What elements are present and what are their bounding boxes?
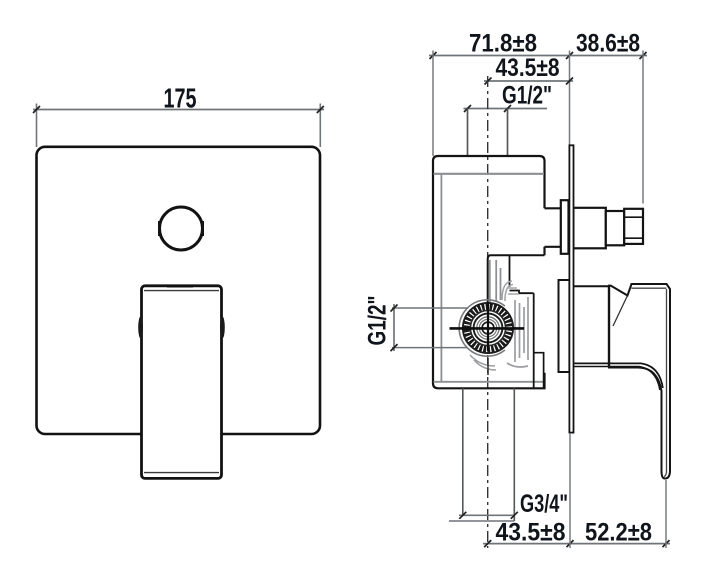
tick G1/2 top (391, 305, 398, 312)
G1/2 left extension bottom (392, 347, 467, 349)
handle inner bottom line (144, 472, 219, 474)
cartridge lower step (534, 353, 544, 388)
dimension 175 line (33, 109, 324, 111)
ring dark mid (474, 314, 503, 343)
bottom port line right (513, 388, 515, 521)
crosshair vertical (487, 302, 489, 351)
tick at 488 (485, 78, 492, 85)
handle side bump right (220, 317, 225, 339)
G1/2 left dimension line vertical (393, 304, 395, 351)
pipe section after plate (573, 208, 605, 249)
pipe stub top line (545, 207, 562, 209)
body inner gray vertical (440, 174, 442, 382)
outer gray flange arc (459, 300, 505, 356)
vertical centerline (dashed) (487, 76, 489, 300)
svg-text:52.2±8: 52.2±8 (585, 519, 652, 547)
nut hex line upper (624, 216, 643, 218)
extension line lever tip (665, 480, 667, 548)
knurl band (467, 307, 509, 349)
43.5 top dimension line (484, 80, 573, 82)
gray hatch right of circle (507, 297, 528, 367)
pipe nut (624, 209, 643, 244)
cartridge inner vertical (510, 255, 534, 293)
extension line plate top (569, 51, 571, 146)
handle side bump left (138, 317, 143, 339)
sleeve left of plate (559, 280, 570, 372)
G3/4 dimension line (459, 514, 514, 516)
tick at 433 (430, 52, 437, 59)
extension line left of plate (36, 104, 38, 148)
handle inner top line (144, 290, 219, 292)
tick at 569 (43.5) (566, 78, 573, 85)
tick at 569 (566, 52, 573, 59)
cartridge right vertical (533, 293, 535, 388)
extension line plate bottom (569, 433, 571, 548)
tick left (33, 106, 40, 113)
cartridge top outline (488, 255, 545, 302)
handle top middle tick (167, 285, 193, 288)
knob side tick left (158, 221, 160, 236)
svg-text:G3/4": G3/4" (520, 490, 568, 518)
pipe flange (561, 200, 569, 254)
G1/2 top dimension line (464, 108, 548, 110)
handle bottom outer line (574, 367, 660, 391)
G1/2 left extension top (392, 307, 467, 309)
handle inner top line (632, 287, 667, 289)
handle body silhouette (609, 284, 670, 479)
top dimension line (429, 55, 647, 57)
sleeve right of plate top line (574, 285, 610, 287)
body box outline (433, 156, 545, 388)
extension line nut end (642, 51, 644, 204)
bottom dimension line (483, 543, 670, 545)
tick at 507.5 (504, 105, 511, 112)
gray cap below circle (470, 355, 496, 370)
handle base left edge (608, 286, 610, 368)
wall plate (front) (37, 147, 321, 434)
knob side tick right (202, 221, 204, 236)
handle chamfer diagonal (613, 296, 628, 327)
tick at centerline (484, 540, 491, 547)
gray stem above port circle (490, 260, 501, 302)
tick G1/2 bottom (391, 344, 398, 351)
svg-text:43.5±8: 43.5±8 (496, 519, 566, 547)
nut hex line lower (624, 237, 643, 239)
diverter knob circle (160, 207, 203, 250)
tick G3/4 right (511, 512, 518, 519)
extension line right of plate (319, 104, 321, 148)
G3/4 second line (449, 520, 514, 522)
pipe stub bottom line (545, 246, 562, 248)
svg-text:43.5±8: 43.5±8 (496, 54, 560, 82)
body inner gray bottom band line (434, 381, 545, 383)
wall plate (side) (569, 145, 573, 432)
bottom port line left (462, 388, 464, 515)
top port line right (507, 109, 509, 157)
centerline dash below circle (487, 358, 489, 375)
inner edge of knurl (470, 310, 505, 345)
tick at lever (663, 540, 670, 547)
handle inner right line + lever inner line (664, 289, 667, 477)
top port line left (467, 109, 469, 157)
handle (front) (142, 286, 222, 479)
tick G3/4 left (459, 512, 466, 519)
outer ring (463, 303, 513, 353)
pipe reducer (606, 211, 624, 245)
extension line body left (432, 51, 434, 157)
gray valve seats right of stem (502, 281, 519, 301)
ring gray 1 (477, 317, 499, 339)
svg-text:G1/2": G1/2" (364, 296, 392, 346)
crosshair horizontal (450, 327, 525, 330)
tick at plate (567, 540, 574, 547)
body inner gray top band line (434, 173, 545, 175)
ring dark small (482, 322, 494, 334)
tick at 643 (640, 52, 647, 59)
tick right (317, 106, 324, 113)
ring gray 2 (479, 319, 496, 336)
handle bottom inner line (574, 363, 663, 388)
svg-text:38.6±8: 38.6±8 (576, 30, 640, 58)
tick at 467.5 (464, 105, 471, 112)
